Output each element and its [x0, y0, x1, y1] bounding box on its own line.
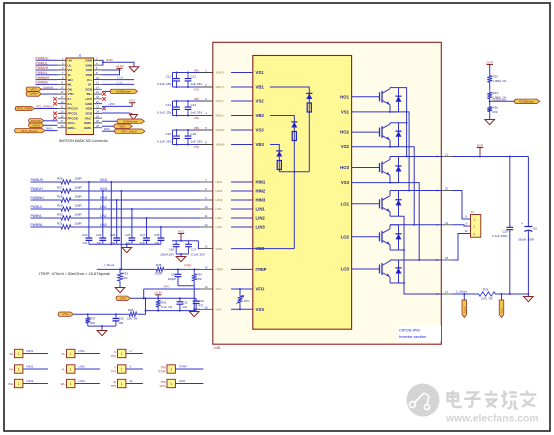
- svg-text:VDD: VDD: [216, 247, 223, 251]
- gate resistor R29 row LIN1: [31, 208, 60, 210]
- svg-text:V: V: [465, 222, 467, 226]
- flag I_U- vertical: [501, 294, 503, 300]
- svg-text:100R: 100R: [75, 203, 83, 207]
- svg-text:LIN2: LIN2: [100, 214, 107, 218]
- svg-text:10: 10: [204, 205, 208, 209]
- P output wire: [399, 156, 442, 158]
- svg-text:R23: R23: [493, 74, 499, 78]
- P rail collectors: [399, 88, 407, 157]
- svg-text:C23: C23: [82, 233, 88, 237]
- svg-text:LIN3: LIN3: [79, 379, 86, 383]
- svg-text:LIN3: LIN3: [100, 223, 107, 227]
- svg-text:IU-: IU-: [68, 97, 72, 101]
- ground mid right of connector: [130, 115, 138, 120]
- svg-text:VDD: VDD: [86, 73, 93, 77]
- svg-text:HIN2: HIN2: [100, 187, 107, 191]
- svg-text:DCBSense: DCBSense: [123, 119, 138, 123]
- svg-text:1uF, 25V: 1uF, 25V: [191, 82, 203, 86]
- resistor R36 VTH: [58, 312, 73, 316]
- resistor R25: [487, 105, 492, 114]
- svg-text:Inverter section: Inverter section: [399, 334, 426, 339]
- svg-text:GND: GND: [106, 58, 114, 62]
- svg-text:C13: C13: [165, 103, 171, 107]
- bootstrap capacitors C15 C16: [173, 129, 201, 131]
- flag VAC-: [102, 125, 115, 127]
- svg-text:VTH: VTH: [68, 92, 74, 96]
- PWM input wires to connector: [36, 59, 58, 61]
- divider R23 R24: [487, 64, 493, 66]
- IGBT Q1 high-side U: [352, 96, 380, 98]
- svg-text:VDD: VDD: [86, 68, 93, 72]
- svg-text:1: 1: [18, 368, 20, 372]
- svg-text:TP5: TP5: [111, 384, 117, 388]
- resistor R31 pullup: [156, 298, 161, 309]
- svg-text:R35: R35: [156, 263, 162, 267]
- svg-text:PFC_PWM: PFC_PWM: [17, 107, 32, 111]
- svg-text:C32: C32: [182, 300, 188, 304]
- svg-text:VSS: VSS: [216, 308, 222, 312]
- svg-text:PWMWL: PWMWL: [36, 81, 49, 85]
- svg-text:VTH: VTH: [62, 312, 68, 316]
- svg-text:I_U+: I_U+: [117, 76, 124, 80]
- svg-text:VTH: VTH: [30, 92, 36, 96]
- svg-text:PWMWH: PWMWH: [36, 76, 50, 80]
- flag VTH: [26, 92, 41, 96]
- svg-text:100R: 100R: [75, 185, 83, 189]
- svg-text:PWMVL: PWMVL: [36, 71, 48, 75]
- power +3.3V pullup: [155, 294, 161, 296]
- svg-text:1uF, 25V: 1uF, 25V: [191, 139, 203, 143]
- power VCC: [129, 103, 135, 107]
- flag PFCOK: [29, 119, 44, 123]
- svg-text:U: U: [130, 349, 132, 353]
- svg-text:EMC-: EMC-: [84, 121, 92, 125]
- flag VAC0: [29, 123, 44, 127]
- flag PFC_Shunt+: [15, 128, 45, 132]
- svg-text:VS3: VS3: [194, 145, 200, 149]
- svg-text:VL: VL: [61, 367, 65, 371]
- svg-text:EMC+: EMC+: [46, 128, 54, 131]
- wires +3.3V pins: [102, 70, 120, 75]
- svg-text:R33: R33: [123, 272, 129, 276]
- svg-text:I_U-: I_U-: [500, 308, 504, 314]
- svg-text:J1: J1: [78, 54, 82, 58]
- gate resistor R26 row HIN1: [31, 181, 60, 183]
- svg-text:R27: R27: [57, 185, 63, 189]
- svg-text:1: 1: [121, 368, 123, 372]
- IPM left boundary pins: [200, 72, 213, 74]
- svg-text:+: +: [521, 221, 523, 225]
- flag PFC_PWM: [15, 106, 34, 110]
- svg-text:U: U: [465, 215, 467, 219]
- svg-text:17: 17: [445, 290, 449, 294]
- svg-text:PFCOK: PFCOK: [31, 119, 41, 123]
- svg-text:UL: UL: [61, 352, 65, 356]
- filter capacitors C23-C28: [88, 182, 90, 237]
- svg-text:100nF,25V: 100nF,25V: [160, 252, 174, 256]
- svg-text:472: 472: [199, 303, 204, 307]
- svg-text:DNI: DNI: [123, 276, 128, 280]
- svg-text:DCBSense: DCBSense: [520, 100, 535, 104]
- svg-text:PWMWH: PWMWH: [31, 196, 45, 200]
- svg-text:C20: C20: [502, 229, 508, 233]
- svg-text:C15: C15: [165, 132, 171, 136]
- divider ground: [489, 114, 491, 120]
- svg-text:PFCG0: PFCG0: [68, 107, 78, 111]
- svg-text:DNI: DNI: [493, 110, 498, 114]
- gate resistor R28 row HIN3: [31, 199, 60, 201]
- svg-text:0.1uF, 630V: 0.1uF, 630V: [492, 234, 507, 238]
- svg-text:VS(V): VS(V): [216, 99, 224, 103]
- svg-text:NTC: NTC: [244, 299, 250, 303]
- svg-text:11: 11: [205, 214, 208, 218]
- bootstrap capacitors C11 C12: [173, 72, 201, 74]
- svg-text:VCC: VCC: [178, 229, 185, 233]
- svg-text:VFO: VFO: [216, 287, 223, 291]
- svg-text:I_U+: I_U+: [463, 307, 467, 314]
- VDD decoupling C17 C18 with VCC: [178, 234, 184, 241]
- svg-text:DCP: DCP: [486, 60, 493, 64]
- svg-text:HIN1: HIN1: [100, 178, 107, 182]
- svg-text:WH: WH: [8, 382, 13, 386]
- svg-text:100R: 100R: [155, 272, 162, 276]
- svg-text:100R: 100R: [75, 176, 83, 180]
- shunt resistor R32: [477, 292, 497, 296]
- svg-text:DNI: DNI: [197, 277, 202, 281]
- svg-text:HIN3: HIN3: [216, 198, 223, 202]
- svg-text:0.1uF, 25V: 0.1uF, 25V: [191, 252, 205, 256]
- svg-text:VB3: VB3: [256, 142, 265, 147]
- ground right of connector: [129, 67, 139, 72]
- svg-text:C21: C21: [171, 272, 177, 276]
- svg-text:R25: R25: [493, 105, 499, 109]
- svg-text:DCB: DCB: [86, 87, 93, 91]
- svg-text:1.00M, 1%: 1.00M, 1%: [493, 79, 507, 83]
- svg-text:PWMVH: PWMVH: [36, 66, 49, 70]
- filter cap ground rail: [89, 243, 161, 245]
- svg-text:VS3: VS3: [341, 180, 350, 185]
- svg-text:HIN3: HIN3: [100, 196, 107, 200]
- svg-text:PWMWL: PWMWL: [31, 223, 44, 227]
- svg-text:UH: UH: [9, 352, 13, 356]
- svg-text:VB(U): VB(U): [216, 85, 224, 89]
- svg-text:U4B: U4B: [214, 346, 221, 350]
- svg-text:VH: VH: [68, 68, 72, 72]
- capacitor C32: [179, 298, 181, 300]
- svg-text:EMC-: EMC-: [84, 126, 92, 130]
- svg-text:100R: 100R: [75, 212, 83, 216]
- svg-text:C25: C25: [110, 233, 116, 237]
- svg-text:VS1: VS1: [194, 88, 200, 92]
- svg-text:VH: VH: [9, 367, 13, 371]
- svg-text:14: 14: [204, 285, 208, 289]
- no-connect marks left pins: [53, 97, 57, 101]
- capacitor C21: [177, 269, 179, 273]
- svg-text:C28: C28: [154, 233, 160, 237]
- svg-text:R31: R31: [57, 221, 63, 225]
- gate resistor R31 row LIN3: [31, 226, 60, 228]
- svg-text:VAC0: VAC0: [32, 124, 40, 128]
- C21 R34 bottom rail: [178, 285, 194, 287]
- svg-text:330uF, 450V: 330uF, 450V: [518, 237, 534, 241]
- P bus wire: [452, 156, 528, 158]
- resistor R34: [193, 269, 195, 272]
- W output wire: [390, 259, 441, 261]
- flag PFC_Shunt-: [102, 130, 116, 132]
- svg-text:10k, 1%: 10k, 1%: [127, 317, 138, 321]
- svg-text:LO1: LO1: [341, 201, 350, 206]
- svg-text:C17: C17: [191, 248, 197, 252]
- svg-text:VFO: VFO: [30, 87, 37, 91]
- svg-text:IU+: IU+: [87, 78, 92, 82]
- svg-text:LIN1: LIN1: [216, 207, 223, 211]
- IGBT Q6 low-side W: [352, 268, 380, 270]
- svg-text:HIN3: HIN3: [256, 198, 266, 203]
- electrolytic cap E2: [527, 157, 529, 227]
- svg-text:VAC-: VAC-: [119, 124, 126, 128]
- svg-text:0.1uF, 25V: 0.1uF, 25V: [157, 110, 171, 114]
- svg-text:CIPOS IPM: CIPOS IPM: [399, 328, 420, 333]
- IGBT Q3 high-side W: [352, 167, 380, 169]
- svg-text:IU+: IU+: [68, 102, 73, 106]
- svg-text:ITRIP: ITRIP: [158, 369, 165, 373]
- svg-text:VS2: VS2: [341, 144, 350, 149]
- svg-text:LIN2: LIN2: [79, 365, 86, 369]
- svg-text:1: 1: [170, 382, 172, 386]
- svg-text:HIN1: HIN1: [216, 180, 223, 184]
- svg-text:VS1: VS1: [341, 109, 350, 114]
- svg-text:VFO: VFO: [120, 297, 127, 301]
- bootstrap bus to VDD: [279, 171, 309, 173]
- svg-text:C26: C26: [125, 233, 131, 237]
- svg-text:LIN1: LIN1: [79, 349, 86, 353]
- svg-text:LIN1: LIN1: [256, 207, 266, 212]
- svg-text:C12: C12: [191, 75, 197, 79]
- svg-text:DCBSense: DCBSense: [116, 90, 131, 94]
- svg-text:VB3: VB3: [194, 126, 200, 130]
- svg-text:HIN1: HIN1: [256, 180, 266, 185]
- no-connect marks right pins: [102, 92, 106, 96]
- bootstrap capacitors C13 C14: [173, 100, 201, 102]
- svg-text:C18: C18: [169, 248, 175, 252]
- bootstrap diodes and resistors: [270, 87, 309, 172]
- svg-text:VSS: VSS: [256, 307, 265, 312]
- svg-text:PFC_Shunt-: PFC_Shunt-: [122, 129, 138, 133]
- svg-text:C33: C33: [118, 316, 124, 320]
- svg-text:PWMUH: PWMUH: [36, 57, 49, 61]
- svg-text:0.1uF, 25V: 0.1uF, 25V: [157, 139, 171, 143]
- svg-text:105: 105: [118, 321, 123, 325]
- svg-text:9.1k, 1%: 9.1k, 1%: [161, 305, 173, 309]
- svg-text:UL: UL: [68, 63, 72, 67]
- svg-text:C14: C14: [191, 103, 197, 107]
- svg-text:HO1: HO1: [340, 94, 349, 99]
- capacitor C22: [195, 298, 197, 300]
- svg-text:HIN1: HIN1: [27, 349, 34, 353]
- svg-text:ITRIP: ITRIP: [256, 267, 267, 272]
- svg-text:18: 18: [445, 256, 449, 260]
- svg-text:LO3: LO3: [341, 267, 350, 272]
- N wire to ground: [497, 293, 528, 295]
- svg-text:16: 16: [204, 305, 208, 309]
- extra verticals HIN nets: [110, 182, 112, 244]
- svg-text:PFCG1: PFCG1: [68, 112, 78, 116]
- svg-text:R37: R37: [90, 316, 96, 320]
- svg-text:100R: 100R: [75, 221, 83, 225]
- pulldown rail VFO: [146, 310, 197, 312]
- svg-text:1: 1: [70, 368, 72, 372]
- svg-text:1: 1: [70, 352, 72, 356]
- svg-text:1: 1: [18, 352, 20, 356]
- svg-text:LIN3: LIN3: [256, 225, 266, 230]
- N rail emitters: [399, 216, 442, 294]
- IGBT Q4 low-side U: [352, 203, 380, 205]
- svg-text:PWMVH: PWMVH: [31, 187, 44, 191]
- svg-text:ITRIP: ITRIP: [216, 268, 224, 272]
- svg-text:+3.3V: +3.3V: [115, 64, 124, 68]
- svg-text:0.1uF, 25V: 0.1uF, 25V: [157, 82, 171, 86]
- svg-text:VFO: VFO: [179, 379, 186, 383]
- capacitor C20: [509, 157, 511, 295]
- wire GND pin4: [102, 64, 103, 66]
- svg-text:GND: GND: [85, 59, 93, 63]
- svg-text:ITRIP: ITRIP: [179, 365, 187, 369]
- svg-text:VB(W): VB(W): [216, 143, 225, 147]
- svg-text:E2: E2: [534, 227, 538, 231]
- DCBSense node and flag: [489, 101, 491, 105]
- svg-text:1: 1: [121, 382, 123, 386]
- IGBT Q5 low-side V: [352, 236, 380, 238]
- svg-text:19: 19: [445, 221, 449, 225]
- svg-text:1: 1: [121, 352, 123, 356]
- W phase wire: [452, 234, 471, 261]
- gate resistor R27 row HIN2: [31, 190, 60, 192]
- VS3 to W rail: [352, 183, 420, 260]
- flag I_U+ vertical: [463, 294, 465, 300]
- svg-text:VFO: VFO: [164, 285, 171, 289]
- svg-text:HIN2: HIN2: [27, 365, 34, 369]
- VFO net wire and flag: [144, 288, 200, 290]
- svg-text:PFC_PWM(1): PFC_PWM(1): [36, 105, 53, 109]
- capacitor C33: [115, 314, 117, 317]
- svg-text:HO3: HO3: [340, 165, 349, 170]
- svg-text:WL: WL: [61, 382, 66, 386]
- svg-text:VS1: VS1: [256, 70, 265, 75]
- connector J4: [471, 215, 481, 238]
- svg-text:R29: R29: [57, 203, 63, 207]
- U output wire: [390, 190, 441, 192]
- svg-text:DCB: DCB: [86, 112, 93, 116]
- svg-text:PWMUH: PWMUH: [31, 178, 44, 182]
- svg-text:PFC_Shunt+: PFC_Shunt+: [21, 129, 38, 133]
- connector J1 pins: [58, 59, 103, 61]
- svg-text:PFCGK: PFCGK: [68, 116, 79, 120]
- svg-text:www.elecfans.com: www.elecfans.com: [445, 414, 539, 425]
- svg-text:R32: R32: [483, 288, 489, 292]
- svg-text:13: 13: [204, 245, 208, 249]
- svg-text:HIN3: HIN3: [27, 379, 34, 383]
- V phase wire: [452, 225, 471, 226]
- svg-text:PWMUL: PWMUL: [36, 61, 48, 65]
- svg-text:VL: VL: [68, 73, 72, 77]
- svg-text:C22: C22: [199, 299, 205, 303]
- svg-text:R30: R30: [57, 212, 63, 216]
- svg-text:1: 1: [170, 368, 172, 372]
- power DCP above P: [477, 147, 483, 149]
- svg-text:LIN1: LIN1: [100, 205, 107, 209]
- svg-text:+15V: +15V: [108, 102, 115, 106]
- wire I_U-: [102, 83, 134, 85]
- svg-text:PWMUL: PWMUL: [31, 205, 43, 209]
- resistor R33 to gnd: [119, 269, 121, 271]
- svg-text:I_Shunt: I_Shunt: [104, 263, 115, 267]
- svg-text:VS2: VS2: [256, 99, 265, 104]
- svg-text:15: 15: [204, 265, 208, 269]
- svg-text:IU-: IU-: [88, 83, 92, 87]
- VS1 to U rail: [352, 112, 410, 191]
- svg-text:UH: UH: [68, 59, 72, 63]
- svg-text:1uF, 25V: 1uF, 25V: [191, 110, 203, 114]
- IPM module boundary U4B: [213, 42, 441, 344]
- svg-text:VS2: VS2: [194, 116, 200, 120]
- svg-text:1: 1: [18, 382, 20, 386]
- svg-text:PWMVL: PWMVL: [31, 214, 43, 218]
- svg-text:LO2: LO2: [341, 234, 350, 239]
- svg-text:DCP: DCP: [477, 143, 484, 147]
- svg-text:C24: C24: [96, 233, 102, 237]
- title CIPOS IPM Inverter section: [398, 325, 442, 341]
- svg-text:TP3: TP3: [111, 369, 117, 373]
- svg-text:WL: WL: [68, 83, 73, 87]
- svg-text:+3.3V: +3.3V: [154, 291, 163, 295]
- svg-text:HIN2: HIN2: [256, 189, 266, 194]
- svg-text:VB1: VB1: [194, 69, 200, 73]
- wire row GND2: [102, 112, 130, 114]
- svg-text:DCBSense: DCBSense: [493, 97, 507, 101]
- svg-text:VFO: VFO: [256, 287, 265, 292]
- svg-text:W: W: [130, 379, 133, 383]
- svg-text:J4: J4: [471, 210, 475, 214]
- svg-text:VCC: VCC: [129, 99, 136, 103]
- svg-text:GND: GND: [85, 63, 93, 67]
- connector J1 body: [66, 58, 94, 135]
- svg-text:C16: C16: [191, 132, 197, 136]
- svg-text:VAC-: VAC-: [85, 116, 92, 120]
- svg-text:W: W: [465, 229, 468, 233]
- svg-text:HO2: HO2: [340, 130, 349, 135]
- svg-text:VS(U): VS(U): [216, 71, 224, 75]
- VSS wire and ground: [194, 308, 200, 310]
- svg-text:VS(W): VS(W): [216, 128, 225, 132]
- resistor R37: [87, 314, 89, 315]
- svg-text:12: 12: [204, 223, 208, 227]
- svg-text:VB(V): VB(V): [216, 114, 224, 118]
- svg-text:1nF: 1nF: [182, 305, 187, 309]
- svg-text:VAC+: VAC+: [68, 121, 76, 125]
- IPM right boundary pins: [441, 156, 452, 158]
- svg-text:R26: R26: [57, 176, 63, 180]
- svg-text:R34: R34: [197, 272, 203, 276]
- svg-text:EMC+: EMC+: [68, 126, 77, 130]
- svg-text:VB2: VB2: [256, 113, 265, 118]
- VS2 to V rail: [352, 147, 415, 225]
- svg-text:1nF: 1nF: [82, 241, 87, 245]
- svg-text:V: V: [130, 365, 132, 369]
- VTH ground rail: [88, 325, 116, 327]
- svg-text:VDD: VDD: [86, 107, 93, 111]
- IGBT Q2 high-side V: [352, 131, 380, 133]
- flag DCBSense lower: [102, 120, 118, 122]
